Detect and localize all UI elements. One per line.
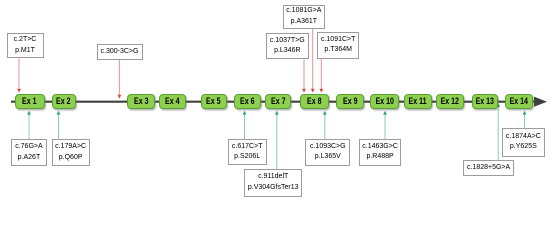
exon Ex 11	[404, 94, 432, 109]
wire main horizontal line	[11, 101, 534, 103]
label c.2T>C p.M1T	[7, 33, 44, 58]
label c.179A>C p.Q60P	[52, 139, 90, 166]
red arrow c.2T>C to Ex1	[17, 59, 21, 93]
green arrow c.179A>C to Ex2	[57, 111, 61, 139]
label c.300-3C>G	[97, 44, 143, 60]
exon Ex 13	[472, 94, 498, 109]
label c.76G>A p.A26T	[11, 139, 47, 166]
exon Ex 8	[300, 94, 329, 109]
exon Ex 12	[436, 94, 464, 109]
exon Ex 2	[52, 94, 76, 109]
exon Ex 5	[201, 94, 227, 109]
exon Ex 3	[127, 94, 155, 109]
label c.911delT p.V304GfsTer13	[244, 169, 302, 197]
label c.1081G>A p.A361T	[283, 5, 325, 29]
red arrow c.1081G>A to Ex8	[311, 29, 315, 93]
red arrow c.1091C>T to Ex8	[319, 59, 323, 93]
label c.1463G>C p.R488P	[359, 139, 401, 166]
exon Ex 1	[15, 94, 45, 109]
label c.1037T>G p.L346R	[266, 33, 309, 59]
exon Ex 14	[505, 94, 534, 109]
red arrow c.300-3C>G to intron 2	[118, 60, 122, 99]
arrowhead of main line	[534, 97, 547, 107]
green arrow c.911delT to Ex7	[275, 111, 279, 169]
exon Ex 4	[159, 94, 186, 109]
green arrow c.1093C>G to Ex8	[323, 111, 327, 139]
label c.1091C>T p.T364M	[317, 32, 359, 59]
exon Ex 9	[336, 94, 364, 109]
label c.1828+5G>A	[463, 160, 513, 176]
green arrow c.617C>T to Ex6	[243, 111, 247, 139]
green arrow c.76G>A to Ex1	[27, 111, 31, 139]
exon Ex 6	[234, 94, 261, 109]
green arrow c.1828+5G>A to intron 13	[496, 103, 500, 160]
label c.1874A>C p.Y625S	[502, 128, 546, 157]
green arrow c.1463G>C to Ex10	[383, 111, 387, 139]
exon Ex 7	[265, 94, 291, 109]
label c.1093C>G p.L365V	[305, 139, 350, 166]
red arrow c.1037T>G to Ex8	[302, 60, 306, 93]
green arrow c.1874A>C to Ex14	[523, 111, 527, 128]
label c.617C>T p.S206L	[228, 139, 267, 165]
exon Ex 10	[370, 94, 399, 109]
